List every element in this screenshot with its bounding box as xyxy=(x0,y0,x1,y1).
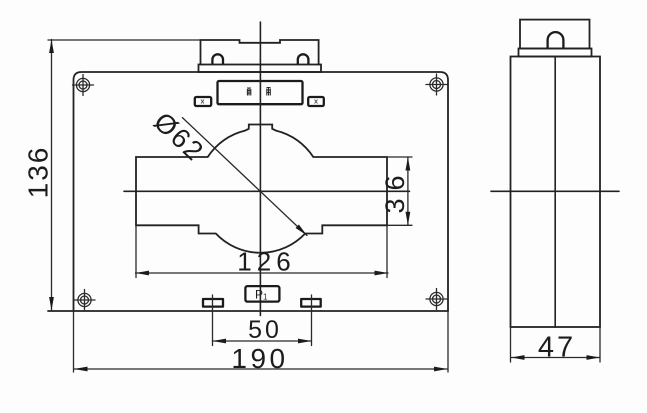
terminal screw right xyxy=(298,54,309,64)
side view vertical centerline xyxy=(554,57,556,328)
dim dia62 leader line xyxy=(182,118,307,236)
terminal block top xyxy=(201,40,319,65)
dim 36 extension lines xyxy=(387,156,412,158)
side view terminal cap xyxy=(520,20,590,49)
vertical centerline front view xyxy=(259,22,261,316)
svg-text:36: 36 xyxy=(380,167,410,213)
P1 terminal box xyxy=(245,286,279,302)
terminal tap box S1 (left) xyxy=(195,97,211,106)
aperture (slot + circle with keyway notch) xyxy=(136,125,387,253)
mounting tab right xyxy=(301,299,321,307)
terminal screw left xyxy=(212,54,223,64)
dim 126 line xyxy=(136,272,389,274)
front view body bottom edge (extended left for 136 dim) xyxy=(48,310,448,312)
dim 50 extension lines xyxy=(212,295,214,346)
nameplate xyxy=(218,81,303,104)
svg-text:136: 136 xyxy=(23,146,54,199)
dim 190 extension lines xyxy=(73,311,75,372)
corner screw bottom-left xyxy=(74,290,95,311)
corner screw bottom-right xyxy=(426,289,447,310)
terminal tap box S2 (right) xyxy=(308,97,324,106)
nameplate character 2 xyxy=(267,87,271,96)
corner screw top-right xyxy=(426,74,447,95)
svg-text:190: 190 xyxy=(231,343,288,374)
dim 47 extension lines xyxy=(510,327,512,362)
side view terminal plate xyxy=(519,49,592,57)
side view body xyxy=(511,57,601,328)
svg-text:126: 126 xyxy=(237,247,295,277)
horizontal centerline front view xyxy=(124,190,410,192)
side view wire arch xyxy=(548,32,564,48)
nameplate character 1 xyxy=(247,88,251,96)
dim 36 line xyxy=(407,157,409,225)
dim 47 line xyxy=(511,357,600,359)
svg-text:47: 47 xyxy=(538,332,576,364)
svg-text:50: 50 xyxy=(248,316,282,344)
dim 136 line xyxy=(51,40,53,311)
side view horizontal centerline xyxy=(491,190,619,192)
front view body outline xyxy=(74,72,449,311)
dim 190 line xyxy=(74,368,448,370)
corner screw top-left xyxy=(73,75,94,96)
dim 50 line xyxy=(213,340,312,342)
mounting tab left xyxy=(203,299,223,307)
dim 126 extension lines xyxy=(135,225,137,277)
dim 136 extension line top xyxy=(48,39,201,41)
terminal plate xyxy=(199,65,322,73)
